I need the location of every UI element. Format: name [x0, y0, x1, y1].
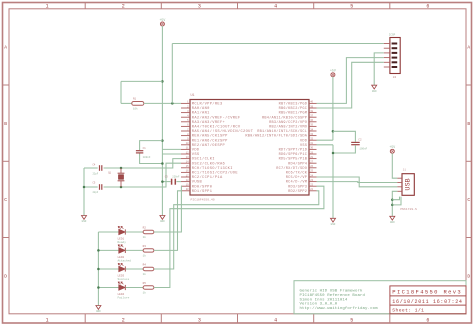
+5V supply P3 [390, 149, 394, 153]
svg-text:Simon Inns 20111014: Simon Inns 20111014 [300, 297, 348, 302]
U1 pin 28 stub [309, 158, 317, 160]
svg-text:B: B [467, 121, 470, 127]
svg-text:D: D [467, 273, 470, 279]
svg-text:Version 3_0_0_0: Version 3_0_0_0 [300, 302, 338, 307]
ground G1 [82, 216, 87, 220]
junction MCLR net [171, 102, 174, 105]
wire RC5 D+ to USB [317, 177, 398, 187]
svg-text:RE2/AN7/OESPP: RE2/AN7/OESPP [192, 143, 226, 148]
junction C3 to GND rail [161, 180, 164, 183]
U1 pin 10 stub [181, 144, 190, 146]
U1 pin 3 stub [181, 112, 190, 114]
svg-text:1: 1 [46, 318, 49, 324]
svg-text:4: 4 [274, 318, 277, 324]
svg-text:J2: J2 [393, 76, 397, 79]
junction C2 bottom [332, 152, 335, 155]
svg-text:22pF: 22pF [93, 172, 99, 175]
svg-text:RB4/AN11/KBI0/CSSPP: RB4/AN11/KBI0/CSSPP [262, 115, 307, 120]
svg-text:RD6/SPP6/P1C: RD6/SPP6/P1C [279, 152, 308, 157]
wire +5V to R1 [121, 80, 162, 82]
wire +5V to VDD pin 11 [162, 148, 181, 150]
wire shield S2 [392, 197, 401, 205]
svg-text:http://www.waitingforfriday.co: http://www.waitingforfriday.com [300, 306, 379, 311]
svg-text:RC2/CCP1/P1A: RC2/CCP1/P1A [192, 175, 223, 180]
wire into R1 [121, 102, 132, 104]
wire LED2 to resistor [126, 249, 144, 251]
svg-text:3: 3 [198, 318, 201, 324]
wire OSC1 to crystal top [104, 159, 181, 168]
svg-text:R3: R3 [143, 245, 147, 248]
U1 pin 12 stub [181, 153, 190, 155]
svg-text:+5V: +5V [389, 145, 395, 149]
U1 pin 26 stub [309, 167, 317, 169]
capacitor C3 220nF [171, 179, 173, 185]
svg-text:6: 6 [426, 4, 429, 10]
svg-text:+5V: +5V [330, 69, 336, 73]
svg-text:A: A [467, 45, 470, 51]
junction shield 2 [391, 204, 394, 207]
svg-text:D: D [4, 273, 7, 279]
svg-text:RB0/AN12/INT0/FLT0/SDI/SDA: RB0/AN12/INT0/FLT0/SDI/SDA [245, 134, 307, 139]
wire PGC to RB6 [317, 62, 384, 108]
wire C3 to VUSB pin [176, 181, 181, 183]
svg-text:GND: GND [331, 223, 336, 226]
wire C5 to GND rail [84, 186, 98, 188]
svg-text:OSC2/CLKO/RA6: OSC2/CLKO/RA6 [192, 161, 225, 166]
svg-text:RD0/SPP0: RD0/SPP0 [192, 184, 213, 189]
U1 pin 17 stub [181, 176, 190, 178]
U1 pin 21 stub [309, 190, 317, 192]
junction C1 top branch [161, 139, 164, 142]
svg-text:PIC18F4550_40: PIC18F4550_40 [191, 197, 215, 201]
wire to C1 top [140, 141, 163, 150]
svg-text:2: 2 [122, 4, 125, 10]
svg-text:RE0/AN5/CK1SPP: RE0/AN5/CK1SPP [192, 134, 228, 139]
svg-text:RB5/KBI1/PGM: RB5/KBI1/PGM [279, 111, 308, 116]
svg-text:Attached: Attached [118, 258, 132, 262]
wire to C2 top [333, 131, 356, 141]
svg-text:RE1/AN6/CK2SPP: RE1/AN6/CK2SPP [192, 138, 228, 143]
crystal Q1 [120, 168, 122, 173]
svg-text:RB1/AN10/INT1/SCK/SCL: RB1/AN10/INT1/SCK/SCL [257, 129, 307, 134]
wire GND rail left [83, 168, 85, 216]
svg-text:RD7/SPP7/P1D: RD7/SPP7/P1D [279, 147, 308, 152]
ground G3 [372, 85, 377, 89]
U1 pin 6 stub [181, 125, 190, 127]
wire VDD pin 32 [317, 139, 333, 141]
svg-text:RA0/AN0: RA0/AN0 [192, 106, 210, 111]
wire VSS pin 31 [317, 144, 334, 146]
U1 pin 27 stub [309, 162, 317, 164]
wire MCLR rail to ICSP pin 1 [172, 43, 383, 45]
junction LED rail 2 [97, 268, 100, 271]
svg-text:RB6/KBI2/PGC: RB6/KBI2/PGC [279, 106, 308, 111]
svg-text:RA3/AN3/VREF+: RA3/AN3/VREF+ [192, 120, 225, 125]
svg-text:C1: C1 [143, 147, 147, 150]
U1 pin 30 stub [309, 148, 317, 150]
wire PGD to RB7 [317, 58, 384, 104]
U1 pin 40 stub [309, 102, 317, 104]
U1 pin 20 stub [181, 190, 190, 192]
svg-text:USB: USB [404, 178, 412, 190]
LED LED4 [98, 287, 118, 289]
U1 pin 2 stub [181, 107, 190, 109]
U1 pin 38 stub [309, 112, 317, 114]
U1 pin 19 stub [181, 185, 190, 187]
svg-text:R2: R2 [143, 227, 147, 230]
U1 pin 32 stub [309, 139, 317, 141]
ground G6 [96, 306, 101, 310]
svg-text:VUSB: VUSB [192, 181, 203, 185]
svg-text:VDD: VDD [192, 148, 200, 152]
junction shield 1 [391, 198, 394, 201]
wire +5V down to VDD right [332, 77, 334, 141]
resistor R1 10k [132, 102, 144, 106]
svg-text:U1: U1 [191, 94, 195, 98]
wire LED1 to resistor [126, 231, 144, 233]
U1 pin 25 stub [309, 171, 317, 173]
svg-text:1k: 1k [143, 254, 147, 258]
U1 pin 13 stub [181, 158, 190, 160]
U1 pin 24 stub [309, 176, 317, 178]
connector J2 ICSP [390, 38, 400, 74]
svg-text:10k: 10k [133, 106, 138, 110]
U1 pin 37 stub [309, 116, 317, 118]
svg-text:RD4/SPP4: RD4/SPP4 [288, 161, 307, 166]
svg-text:RD2/SPP2: RD2/SPP2 [288, 189, 307, 194]
U1 pin 22 stub [309, 185, 317, 187]
svg-text:A: A [4, 45, 7, 51]
svg-text:OSC1/CLKI: OSC1/CLKI [192, 157, 215, 162]
wire MCLR up to ICSP rail [171, 44, 173, 104]
svg-text:RC1/T1OSI/CCP2/UOE: RC1/T1OSI/CCP2/UOE [192, 170, 239, 175]
wire C1 bottom to GND rail [140, 154, 163, 164]
svg-text:J1: J1 [403, 169, 407, 172]
junction +5V rail to R1 branch [161, 80, 164, 83]
op IC U1 PIC18F4550 body [190, 100, 309, 196]
U1 pin 39 stub [309, 107, 317, 109]
svg-text:22pF: 22pF [93, 191, 99, 194]
svg-text:4: 4 [274, 4, 277, 10]
svg-text:VSS: VSS [192, 153, 200, 157]
svg-text:RC7/RX/DT/SDO: RC7/RX/DT/SDO [276, 166, 307, 171]
title block [294, 281, 466, 314]
svg-text:GND: GND [96, 310, 101, 313]
svg-text:Success: Success [118, 278, 130, 281]
U1 pin 35 stub [309, 125, 317, 127]
svg-text:Failure: Failure [118, 295, 130, 299]
wire R1 to MCLR pin [144, 102, 181, 104]
svg-text:RD1/SPP1: RD1/SPP1 [192, 189, 213, 194]
U1 pin 8 stub [181, 135, 190, 137]
U1 pin 11 stub [181, 148, 190, 150]
ground G4 [390, 216, 395, 220]
svg-text:B: B [4, 121, 7, 127]
wire USB GND [392, 191, 397, 216]
U1 pin 15 stub [181, 167, 190, 169]
svg-text:VSS: VSS [300, 144, 307, 148]
U1 pin 36 stub [309, 121, 317, 123]
svg-text:1k: 1k [143, 291, 147, 295]
U1 pin 16 stub [181, 171, 190, 173]
wire RD1 to LED2 [154, 191, 181, 251]
junction LED rail 3 [97, 286, 100, 289]
svg-text:100nF: 100nF [143, 156, 151, 159]
svg-text:RA1/AN1: RA1/AN1 [192, 111, 210, 116]
wire VSS down to ground [332, 145, 334, 219]
svg-text:RC5/D+/VP: RC5/D+/VP [286, 175, 307, 180]
U1 pin 7 stub [181, 130, 190, 132]
svg-text:PIC18F4550 Reference Board: PIC18F4550 Reference Board [300, 293, 366, 298]
capacitor C5 22pF [99, 184, 101, 190]
resistor R5 1k [143, 286, 154, 289]
U1 pin 31 stub [309, 144, 317, 146]
svg-text:RA2/AN2/VREF-/CVREF: RA2/AN2/VREF-/CVREF [192, 115, 241, 120]
LED LED3 [98, 268, 118, 270]
wire RD0 to LED1 [154, 186, 182, 232]
+5V supply P1 [160, 22, 164, 26]
svg-text:Generic HID USB Framework: Generic HID USB Framework [300, 289, 363, 294]
wire GND rail to C3 [162, 181, 170, 183]
wire shield S1 [392, 197, 399, 200]
capacitor C1 100nF [136, 150, 143, 152]
wire C2 bottom to GND [333, 145, 355, 153]
U1 pin 33 stub [309, 135, 317, 137]
LED LED2 [98, 249, 118, 251]
svg-text:GND: GND [82, 220, 87, 223]
+5V supply P2 [331, 73, 335, 77]
wire +5V to USB VBUS [392, 153, 397, 178]
svg-text:RC0/T1OSO/T13CKI: RC0/T1OSO/T13CKI [192, 166, 233, 171]
svg-text:Sheet: 1/1: Sheet: 1/1 [392, 308, 424, 314]
wire OSC2 to crystal bottom [104, 163, 181, 187]
wire LED4 to resistor [126, 287, 144, 289]
wire LED3 to resistor [126, 268, 144, 270]
svg-text:6: 6 [426, 318, 429, 324]
svg-text:RA5/AN4/!SS/HLVDIN/C2OUT: RA5/AN4/!SS/HLVDIN/C2OUT [192, 129, 254, 134]
svg-text:VDD: VDD [300, 139, 307, 143]
wire +5V/GND rail vertical [161, 26, 163, 216]
junction crystal top [120, 167, 123, 170]
svg-text:RB2/AN8/INT2/VMO: RB2/AN8/INT2/VMO [269, 124, 307, 129]
svg-text:RA4/T0CKI/C1OUT/RCV: RA4/T0CKI/C1OUT/RCV [192, 124, 241, 129]
svg-text:1k: 1k [143, 272, 147, 276]
svg-text:RC6/TX/CK: RC6/TX/CK [286, 170, 308, 175]
svg-text:MCLR/VPP/RE3: MCLR/VPP/RE3 [192, 101, 223, 106]
svg-text:R4: R4 [143, 264, 147, 267]
U1 pin 18 stub [181, 181, 190, 183]
junction LED rail 1 [97, 249, 100, 252]
svg-text:2: 2 [122, 318, 125, 324]
U1 pin 5 stub [181, 121, 190, 123]
U1 pin 23 stub [309, 181, 317, 183]
svg-text:ICSP: ICSP [389, 34, 396, 37]
junction crystal bottom [120, 186, 123, 189]
svg-text:16/10/2011 16:07:24: 16/10/2011 16:07:24 [392, 299, 462, 305]
svg-text:5: 5 [350, 318, 353, 324]
svg-text:R5: R5 [143, 282, 147, 285]
junction C1 bottom [161, 162, 164, 165]
LED LED1 [98, 231, 118, 233]
U1 pin 1 stub [181, 102, 190, 104]
capacitor C4 22pF [99, 165, 101, 171]
wire down to R1 left [120, 81, 122, 103]
wire RD3 to LED4 [154, 186, 324, 287]
svg-text:GND: GND [390, 221, 395, 224]
svg-text:100nF: 100nF [359, 148, 367, 151]
svg-text:RB3/AN9/CCP2/VPO: RB3/AN9/CCP2/VPO [269, 120, 307, 125]
svg-text:RC4/D-/VM: RC4/D-/VM [286, 180, 307, 185]
U1 pin 34 stub [309, 130, 317, 132]
resistor R4 1k [143, 267, 154, 270]
svg-text:PIC18F4550 Rev3: PIC18F4550 Rev3 [392, 289, 462, 296]
U1 pin 29 stub [309, 153, 317, 155]
svg-text:C: C [467, 197, 470, 203]
ground G5 [331, 218, 336, 222]
svg-text:GND: GND [372, 90, 377, 93]
svg-text:GND: GND [160, 220, 165, 223]
svg-text:PN61729-S: PN61729-S [400, 207, 417, 211]
wire ICSP pin3 to ground [374, 53, 384, 85]
junction GND rail [83, 186, 86, 189]
svg-text:5: 5 [350, 4, 353, 10]
svg-text:RB7/KBI3/PGD: RB7/KBI3/PGD [279, 101, 308, 106]
wire RC4 D- to USB [317, 181, 398, 184]
connector J1 USB [402, 174, 414, 196]
svg-text:+5V: +5V [160, 18, 166, 22]
U1 pin 4 stub [181, 116, 190, 118]
svg-text:R1: R1 [133, 98, 137, 101]
ground G2 [160, 216, 165, 220]
wire RD2 to LED3 [154, 191, 319, 269]
resistor R3 1k [143, 249, 154, 252]
LED cathode rail [97, 232, 99, 306]
svg-text:3: 3 [198, 4, 201, 10]
U1 pin 14 stub [181, 162, 190, 164]
svg-text:1: 1 [46, 4, 49, 10]
svg-text:Ready: Ready [118, 240, 127, 244]
U1 pin 9 stub [181, 139, 190, 141]
svg-text:C2: C2 [358, 138, 362, 141]
wire GND rail to VSS pin 12 [162, 153, 181, 155]
svg-text:220nF: 220nF [172, 176, 180, 179]
svg-text:RD5/SPP5/P1B: RD5/SPP5/P1B [279, 157, 308, 162]
wire C4 to GND rail [84, 167, 98, 169]
svg-text:1k: 1k [143, 235, 147, 239]
capacitor C2 100nF [351, 141, 360, 143]
svg-text:RD3/SPP3: RD3/SPP3 [288, 184, 307, 189]
resistor R2 1k [143, 230, 154, 233]
svg-text:C: C [4, 197, 7, 203]
junction C2 branch [332, 130, 335, 133]
